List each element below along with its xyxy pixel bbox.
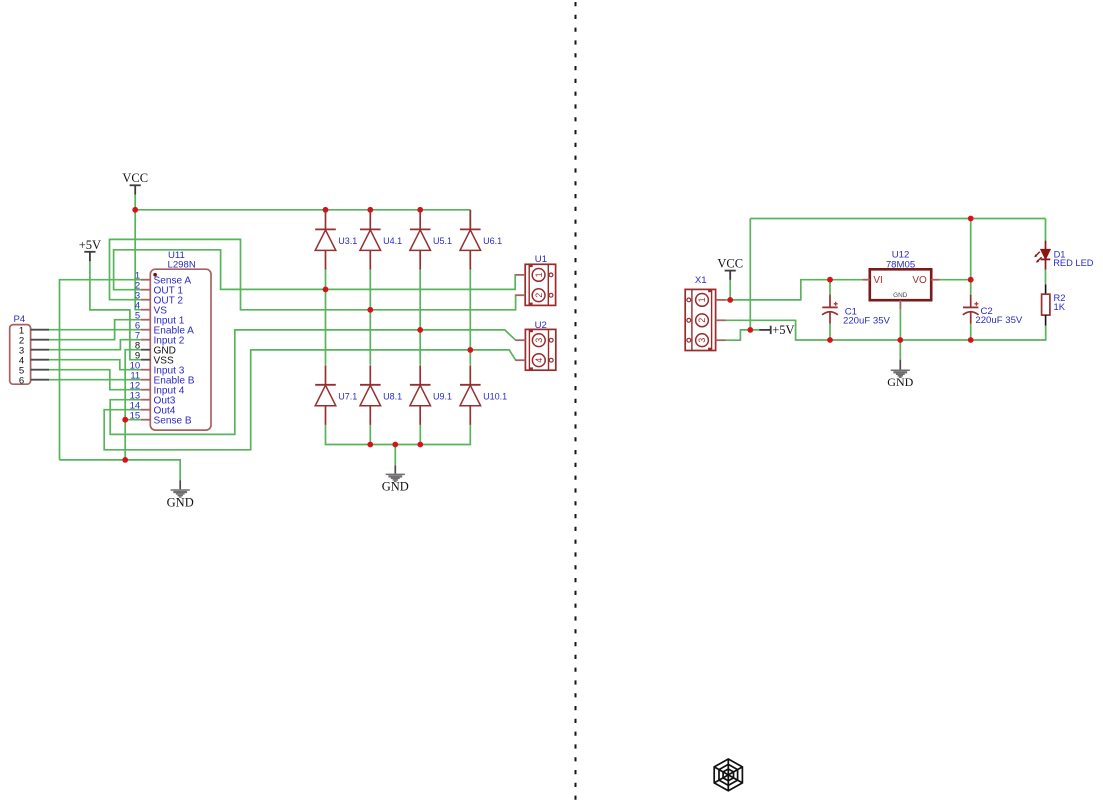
wire diode column 4 mid: [469, 210, 471, 229]
wire +5V symbol link: [750, 329, 759, 331]
resistor R2 1K: [1042, 285, 1066, 326]
wire P4.5 to Input 4: [49, 370, 142, 390]
svg-text:X1: X1: [695, 275, 707, 286]
hexagonal web logo: [714, 759, 742, 791]
wire P4.4 to Input 3: [49, 360, 142, 370]
U11 pin 11 Enable B: [130, 371, 194, 387]
U11 pin 4 VS: [135, 301, 167, 317]
svg-text:3: 3: [697, 338, 707, 343]
junction GND rail: [122, 457, 128, 463]
capacitor C2: [963, 295, 1023, 326]
capacitor C1: [822, 295, 890, 327]
svg-text:U3.1: U3.1: [338, 236, 357, 246]
wire diode column 3 mid: [419, 268, 421, 365]
wire VCC drop to junction: [134, 195, 136, 210]
junction bus col2: [367, 442, 373, 448]
wire P4.2 to Input 1: [49, 320, 142, 340]
U11 pin1 indicator dot: [153, 273, 157, 277]
wire Sense B (pin15) to GND line: [125, 419, 141, 421]
wire +5V to U11 pin9 VSS: [90, 260, 142, 360]
wire OUT1 (pin2) to U1 pin1: [114, 250, 516, 290]
junction bus col3: [417, 442, 423, 448]
svg-text:GND: GND: [887, 375, 913, 389]
wire Out4 (pin14) to U2 pin4: [104, 350, 516, 450]
svg-text:U5.1: U5.1: [433, 236, 452, 246]
wire +5V rail left drop: [749, 219, 751, 330]
power symbol +5V right (rotated): [759, 323, 794, 337]
svg-text:2: 2: [534, 293, 544, 298]
wire C2 bottom lead: [970, 324, 972, 340]
wire X1 pin1 to U12 VI: [725, 280, 862, 300]
ground symbol diode bus: [382, 465, 409, 493]
U11 pin 13 Out3: [130, 391, 176, 407]
regulator U12 78M05: [862, 249, 939, 309]
U11 pin 1 Sense A: [135, 271, 191, 287]
junction +5V X1 pin3: [747, 327, 753, 333]
U11 pin 12 Input 4: [130, 381, 185, 397]
U11 pin 10 Input 3: [130, 361, 185, 377]
diode U4.1: [360, 210, 402, 270]
dashed page separator: [575, 2, 577, 805]
wire Out3 (pin13) to U2 pin3: [110, 330, 516, 435]
diode U10.1: [460, 365, 507, 425]
wire U12 VO to C2 node: [940, 279, 971, 281]
wire diode column 4 mid lower: [469, 268, 471, 365]
U11 pin 9 VSS: [135, 351, 174, 367]
junction C2 VO: [968, 277, 974, 283]
svg-text:U4.1: U4.1: [383, 236, 402, 246]
svg-text:GND: GND: [167, 495, 194, 509]
svg-text:1: 1: [534, 272, 544, 277]
svg-text:Sense B: Sense B: [154, 415, 192, 426]
IC U11 L298N: [150, 250, 211, 430]
junction OUT1 col1: [323, 287, 329, 293]
svg-text:GND: GND: [893, 292, 908, 299]
junction bus GND tap: [392, 442, 398, 448]
junction top rail col2: [367, 207, 373, 213]
svg-text:GND: GND: [382, 480, 409, 494]
LED D1 RED LED: [1034, 241, 1094, 270]
wire X1 pin2 GND rail: [725, 320, 1045, 340]
svg-text:U6.1: U6.1: [483, 236, 502, 246]
junction top rail col3: [417, 207, 423, 213]
svg-text:4: 4: [534, 358, 544, 363]
wire VCC top rail: [135, 209, 470, 211]
junction Sense B GND: [122, 417, 128, 423]
U11 pin 6 Enable A: [135, 321, 194, 337]
junction OUT3 col3: [417, 327, 423, 333]
wire bus GND tap: [394, 445, 396, 466]
diode U7.1: [315, 365, 357, 425]
wire D1 to R2: [1045, 270, 1047, 285]
wire bottom diode bus: [326, 425, 471, 445]
wire P4.3 to Input 2: [49, 340, 142, 350]
svg-text:VCC: VCC: [717, 257, 743, 271]
wire C1 bottom lead: [829, 324, 831, 340]
wire GND rail bottom left: [60, 460, 181, 480]
U11 pin 3 OUT 2: [135, 291, 184, 307]
svg-text:VO: VO: [912, 275, 927, 286]
diode U3.1: [315, 210, 357, 270]
wire U12 GND down: [899, 309, 901, 340]
junction OUT4 col4: [467, 347, 473, 353]
svg-text:2: 2: [697, 318, 707, 323]
junction VCC: [132, 207, 138, 213]
junction OUT2 col2: [367, 307, 373, 313]
U11 pin 14 Out4: [130, 401, 176, 417]
svg-text:U10.1: U10.1: [483, 391, 507, 401]
wire VCC to U11 pin4 VS: [135, 210, 141, 310]
wire P4.6 to Enable B: [49, 379, 142, 381]
junction U12 GND rail: [897, 337, 903, 343]
U11 pin 7 Input 2: [135, 331, 185, 347]
svg-text:15: 15: [130, 411, 141, 422]
ground symbol under U11: [167, 480, 194, 509]
wire +5V top rail: [750, 218, 1045, 220]
wire X1 pin3 jog: [725, 330, 750, 340]
ground symbol right: [887, 360, 913, 389]
power symbol VCC right: [717, 257, 743, 280]
wire diode column 2 mid: [369, 268, 371, 365]
svg-text:1K: 1K: [1054, 301, 1066, 312]
U11 pin 15 Sense B: [130, 411, 192, 427]
power symbol VCC left: [122, 171, 148, 194]
svg-text:+5V: +5V: [79, 238, 101, 252]
svg-text:U8.1: U8.1: [383, 391, 402, 401]
power symbol +5V left: [79, 238, 101, 261]
diode U6.1: [460, 210, 502, 270]
diode U8.1: [360, 365, 402, 425]
terminal block U2: [516, 320, 556, 371]
wire C1 top lead: [829, 280, 831, 295]
svg-text:U1: U1: [535, 254, 547, 265]
svg-text:3: 3: [534, 338, 544, 343]
wire Sense A (pin1) to GND rail: [60, 280, 142, 460]
wire P4.1 to Enable A: [49, 329, 142, 331]
svg-text:220uF 35V: 220uF 35V: [975, 315, 1023, 326]
terminal block X1: [685, 275, 725, 351]
svg-text:U9.1: U9.1: [433, 391, 452, 401]
wire GND (pin8) down: [125, 350, 141, 460]
junction C1 GND rail: [827, 337, 833, 343]
wire D1 top lead: [1045, 219, 1047, 241]
svg-text:VCC: VCC: [122, 171, 148, 185]
wire col3 to bus: [419, 425, 421, 445]
svg-text:VI: VI: [873, 275, 882, 286]
connector P4: [10, 314, 49, 386]
wire OUT2 (pin3) to U1 pin2: [110, 239, 517, 309]
junction VCC X1 pin1: [727, 297, 733, 303]
svg-text:1: 1: [697, 297, 707, 302]
terminal block U1: [515, 254, 555, 306]
wire col2 to bus: [369, 425, 371, 445]
U11 pin 8 GND: [135, 341, 176, 357]
svg-text:P4: P4: [14, 314, 26, 325]
wire diode column 1 mid: [325, 268, 327, 365]
diode U9.1: [410, 365, 452, 425]
wire C2 column: [970, 219, 972, 296]
junction top rail C2: [968, 216, 974, 222]
svg-text:+5V: +5V: [772, 323, 794, 337]
wire VCC right drop: [729, 280, 731, 300]
svg-text:U7.1: U7.1: [338, 391, 357, 401]
svg-text:220uF 35V: 220uF 35V: [843, 315, 891, 326]
svg-text:6: 6: [19, 375, 24, 386]
junction top rail col1: [323, 207, 329, 213]
diode U5.1: [410, 210, 452, 270]
svg-text:RED LED: RED LED: [1053, 258, 1094, 268]
junction C1 VI: [827, 277, 833, 283]
junction C2 GND rail: [968, 337, 974, 343]
wire GND tap right: [899, 340, 901, 360]
U11 pin 2 OUT 1: [135, 281, 184, 297]
U11 pin 5 Input 1: [135, 311, 185, 327]
